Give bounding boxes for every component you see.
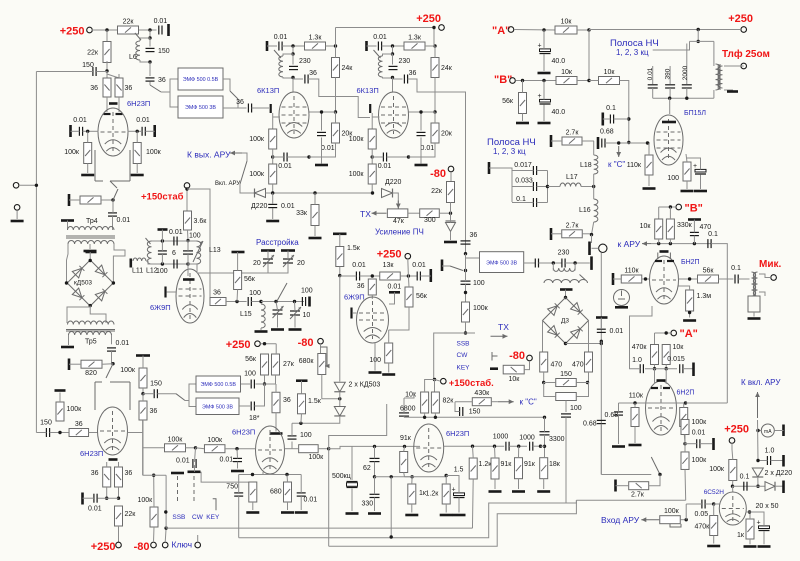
label 6S52N: [704, 489, 725, 496]
label 470k agc: [695, 524, 711, 531]
junction 0.01 keyer: [105, 497, 108, 500]
wire 330k top: [669, 207, 671, 219]
resistor 100k keyer left: [56, 402, 82, 421]
junction row476 391: [390, 475, 393, 478]
wire 62 top: [374, 446, 376, 458]
terminator secondary: [727, 90, 738, 93]
wire mode cap down: [194, 465, 196, 472]
svg-text:100к: 100к: [146, 149, 162, 156]
wire tank3 right: [565, 262, 590, 264]
wire D3 left leg: [542, 321, 544, 353]
wire 150 cap stub: [455, 402, 460, 412]
wire 110k 6N2P top: [634, 403, 636, 408]
svg-text:0.01: 0.01: [278, 163, 292, 170]
wire col to cap: [340, 275, 357, 277]
svg-text:1, 2, 3 кц: 1, 2, 3 кц: [493, 147, 526, 156]
wire xtal bottom: [351, 489, 353, 512]
capacitor 0.01 row276: [352, 262, 366, 281]
wire cap to tank: [539, 262, 562, 264]
resistor 36 L15: [210, 290, 226, 306]
resistor 22k horizontal: [118, 19, 139, 35]
wire 12k top: [445, 476, 447, 485]
label 2.7k bot: [631, 492, 645, 499]
wire ARU line: [651, 243, 712, 245]
svg-text:56к: 56к: [245, 356, 257, 363]
svg-text:100к: 100к: [664, 508, 680, 515]
switch L12 top: [146, 238, 151, 244]
svg-text:+250: +250: [226, 339, 251, 351]
wire 1.5k lower bottom: [300, 414, 303, 424]
junction tx 100k top: [464, 291, 467, 294]
label A out: [680, 328, 698, 340]
svg-text:0.01: 0.01: [88, 506, 102, 513]
wire +250 node: [260, 343, 276, 345]
svg-text:KEY: KEY: [206, 514, 220, 521]
grid terminator bar stage 2: [369, 104, 371, 113]
triode 6Zh9P mid: [357, 297, 389, 343]
label -80 bottom: [134, 541, 150, 553]
wire ecap agc top: [750, 512, 765, 526]
terminator 0.01 left tube1: [69, 125, 72, 137]
svg-text:1, 2, 3 кц: 1, 2, 3 кц: [616, 48, 649, 57]
capacitor 230 tank stage 1: [289, 58, 311, 70]
wire pair right: [576, 383, 588, 397]
mic transformer primary: [752, 272, 756, 296]
svg-text:"А": "А": [492, 25, 510, 37]
indicator circle: [614, 290, 630, 306]
junction 005 grid: [712, 502, 715, 505]
wire diode to gnd: [450, 232, 452, 241]
junction cath left: [251, 473, 254, 476]
wire cap to grid left: [83, 130, 99, 132]
ground crystal: [346, 512, 359, 515]
junction tone out: [327, 447, 330, 450]
junction tank top stage 1: [291, 44, 294, 47]
wire B+ bus riser stage1: [335, 28, 337, 47]
wire terminal stub: [407, 259, 410, 276]
svg-text:SSB: SSB: [172, 514, 185, 521]
svg-text:10к: 10к: [640, 223, 652, 230]
junction meter col: [756, 429, 759, 432]
wire ecap top: [446, 476, 459, 493]
svg-text:6800: 6800: [400, 406, 416, 413]
wire tone cap1 drop: [652, 66, 654, 84]
wire 12k bottom: [445, 504, 447, 513]
wire AGC cap gnd: [272, 208, 274, 219]
label 91k input: [400, 435, 412, 442]
wire pot to -80 terminal: [524, 361, 529, 370]
wire cap3 left: [512, 202, 533, 204]
resistor 100k grid lower stage 1: [249, 164, 276, 184]
junction L6 tank bottom: [148, 60, 151, 63]
junction AF kC: [617, 141, 620, 144]
svg-text:2.7к: 2.7к: [566, 130, 580, 137]
svg-text:230: 230: [299, 58, 311, 65]
wire D3 right leg: [588, 321, 590, 353]
terminator 0.01 osc: [158, 228, 168, 231]
label CW mode: [192, 514, 204, 521]
svg-text:100к: 100к: [249, 136, 265, 143]
bus 12k drop: [472, 525, 474, 529]
wire tank to tube grid: [187, 264, 189, 276]
svg-text:36: 36: [75, 421, 83, 428]
ground indicator: [615, 306, 628, 309]
wire row 476 right: [375, 476, 413, 478]
label 6N23P keyer: [80, 449, 103, 458]
capacitor 150 mixer: [150, 381, 162, 399]
wire Tr5 sec right: [111, 335, 113, 344]
wire 3300 top: [544, 417, 546, 431]
capacitor 0.1 mic: [731, 265, 741, 284]
wire grid into tube stage 2: [372, 116, 379, 118]
capacitor 0.01 AGC decouple stage 2: [378, 153, 392, 171]
terminal A input: [508, 27, 514, 33]
capacitor 0.01 B+ stage 1: [274, 34, 288, 51]
arrow TX: [372, 211, 387, 216]
svg-text:-80: -80: [298, 337, 314, 349]
wire 100k mode right: [186, 447, 196, 449]
junction b+ 6Zh9P: [407, 274, 410, 277]
capacitor 0.01 AGC gnd: [268, 203, 295, 210]
junction ARU 10k: [657, 242, 660, 245]
terminator 100k col: [136, 354, 150, 357]
label SSB: [457, 341, 470, 348]
svg-text:6Ж9П: 6Ж9П: [150, 303, 171, 312]
svg-text:100: 100: [473, 280, 485, 287]
wire anode riser: [669, 98, 671, 114]
wire B down 10k: [658, 207, 660, 219]
terminator varcap2: [281, 249, 295, 252]
label L13: [209, 247, 221, 254]
label TX left: [360, 209, 371, 219]
terminal Klyuch: [162, 542, 168, 548]
wire AGC line left: [266, 192, 373, 194]
switch L15: [277, 283, 287, 301]
wire switch pole: [489, 168, 512, 202]
capacitor 230 out tank: [558, 250, 570, 268]
label 6N2P second: [677, 390, 695, 397]
wire L16 top: [593, 187, 595, 200]
svg-text:к АРУ: к АРУ: [618, 239, 641, 249]
resistor 10k A out: [662, 344, 684, 365]
junction B 56k: [521, 79, 524, 82]
svg-text:0.01: 0.01: [136, 117, 150, 124]
wire to coil stage 1: [283, 54, 293, 56]
terminal input left: [13, 183, 19, 189]
twin triode 6N23P third: [414, 424, 444, 472]
junction tank top right: [186, 239, 189, 242]
terminator Tr4 primary: [61, 219, 74, 222]
wire L15 row: [261, 301, 304, 303]
terminator 100k keyer: [55, 389, 66, 392]
arrow to k C: [616, 146, 621, 157]
wire grid bar tube mid: [353, 312, 357, 314]
resistor 10k A: [555, 19, 577, 35]
resistor 36 screen: [357, 279, 377, 295]
terminal +250 6Zh9P: [405, 253, 411, 259]
ground diode: [444, 241, 457, 244]
ground 1.2k cath: [440, 514, 453, 517]
pot wiper 100k: [670, 524, 681, 527]
svg-text:6Н23П: 6Н23П: [446, 429, 469, 438]
grid terminator bar stage 1: [270, 104, 272, 113]
variable capacitor 10 a: [273, 306, 284, 318]
terminator 820 input: [68, 194, 71, 206]
svg-text:к "С": к "С": [520, 398, 537, 407]
ground 18k: [537, 490, 550, 493]
svg-text:100к: 100к: [473, 305, 489, 312]
wire mic gnd: [759, 292, 765, 296]
resistor 10k divider: [405, 392, 428, 414]
resistor 100k mode: [165, 436, 186, 452]
ground B cap: [538, 122, 551, 125]
svg-text:56к: 56к: [416, 293, 428, 300]
svg-text:0.1: 0.1: [606, 105, 616, 112]
resistor 1.5k col: [336, 245, 361, 267]
wire 20k top stage 1: [335, 112, 337, 123]
wire tube to 1.3M: [679, 286, 690, 290]
svg-text:56к: 56к: [703, 268, 715, 275]
wire bar to switch: [442, 265, 450, 267]
resistor 56k mixer: [245, 354, 268, 375]
junction tank coil top stage 2: [391, 52, 394, 55]
capacitor 6 shunt: [158, 251, 167, 254]
wire 0.01 bar stub: [161, 230, 163, 242]
ground 91k ladder1: [489, 490, 502, 493]
capacitor tank main: [183, 251, 193, 254]
svg-text:330к: 330к: [677, 222, 693, 229]
terminal -80 IF: [448, 166, 454, 172]
potentiometer 47k: [387, 209, 408, 218]
resistor 56k mic: [698, 268, 719, 284]
capacitor 0.01 B+ stage 2: [373, 34, 387, 51]
svg-text:Тр5: Тр5: [85, 339, 97, 346]
wire tank bottom join stage 1: [283, 77, 293, 78]
wire res1 bottom: [252, 502, 254, 510]
wire 62 bottom: [374, 462, 376, 477]
wire EMF2 output: [223, 107, 247, 109]
junction tx node: [464, 331, 467, 334]
wire 6800 top: [403, 398, 405, 413]
svg-text:24к: 24к: [342, 65, 354, 72]
terminator 470 cap: [688, 218, 701, 221]
svg-text:+: +: [693, 163, 697, 170]
wire varcap a bottom: [277, 314, 279, 328]
junction L6 tank top: [148, 36, 151, 39]
junction meter node: [731, 485, 734, 488]
svg-text:100: 100: [244, 371, 256, 378]
label A input: [492, 25, 510, 37]
switch EMF3: [450, 266, 463, 271]
capacitor 230 tank stage 2: [389, 58, 411, 70]
resistor 22k vertical: [87, 42, 111, 63]
wire 100k right top: [136, 131, 138, 142]
capacitor 100 top rail: [174, 237, 177, 246]
svg-text:300: 300: [424, 217, 436, 224]
capacitor 0.1 meter: [740, 474, 750, 491]
svg-text:+250: +250: [60, 26, 85, 38]
resistor 56k B: [502, 93, 526, 114]
svg-text:1.3к: 1.3к: [309, 35, 323, 42]
resistor 22k bias: [431, 182, 454, 203]
svg-text:ЭМФ 500 0.5В: ЭМФ 500 0.5В: [183, 77, 219, 83]
svg-text:-80: -80: [134, 541, 150, 553]
resistor 91k ladder2: [515, 458, 536, 479]
wire 100 det bottom: [565, 417, 567, 503]
terminator band switch: [488, 162, 491, 174]
svg-text:100к: 100к: [168, 436, 184, 443]
wire 36 down: [142, 420, 144, 475]
ground L15: [255, 330, 268, 333]
ground Tr4 center tap: [84, 250, 97, 253]
capacitor 3300: [540, 432, 565, 443]
wire 470L bottom: [543, 372, 545, 383]
junction bridge top: [89, 259, 92, 262]
label 0.01 keyer: [88, 506, 102, 513]
wire cap out top: [300, 475, 302, 493]
capacitor 0.01 mode: [193, 459, 196, 468]
junction 22k keyer: [117, 497, 120, 500]
svg-text:L13: L13: [209, 247, 221, 254]
wire 100 top: [388, 330, 390, 343]
wire 10k2 to riser: [620, 81, 629, 143]
wire node to 22k vertical: [106, 30, 108, 43]
svg-text:10к: 10к: [405, 392, 417, 399]
wire stack join stage 2: [371, 149, 373, 164]
svg-text:680: 680: [270, 489, 282, 496]
rectifier KD503: [67, 260, 113, 306]
wire bar to cap stage 2: [367, 45, 377, 47]
terminator EMF3 switch: [441, 260, 444, 272]
wire 110k to tube: [642, 278, 650, 280]
svg-text:0.01: 0.01: [692, 430, 706, 437]
wire 820 to node: [102, 363, 113, 366]
wire caps common: [547, 171, 549, 203]
wire tank bottom join stage 2: [383, 77, 393, 78]
junction 1.5k bottom: [299, 422, 302, 425]
wire klyuch up: [164, 528, 167, 542]
wire shunt bottom: [161, 254, 163, 264]
resistor 1.3k stage 1: [305, 35, 326, 51]
wire 2.7k to L16 node: [582, 233, 591, 235]
label +250 top-left: [60, 26, 85, 38]
junction 100k keyer: [58, 431, 61, 434]
resistor grid right 6N2P: [680, 408, 688, 427]
filter EMF 500 3V top: [178, 96, 223, 118]
wire bridge out tap: [90, 307, 106, 323]
svg-text:820: 820: [85, 370, 97, 377]
svg-text:430к: 430к: [474, 390, 490, 397]
label 6N23P first: [127, 99, 150, 108]
wire Tr4 sec center tap: [89, 244, 91, 249]
label 123kc left: [493, 147, 526, 156]
capacitor 0.01 det: [597, 328, 623, 335]
label L18: [580, 162, 592, 169]
svg-text:Ключ: Ключ: [172, 540, 193, 550]
cathode bar keyer: [109, 458, 118, 461]
wire tr6 bar: [565, 290, 567, 298]
label 1.5: [454, 467, 464, 474]
label 390 vertical: [665, 68, 672, 79]
wire anode right up: [665, 369, 667, 384]
label CW: [457, 352, 469, 359]
svg-text:47к: 47к: [393, 218, 405, 225]
wire tube right lead: [128, 432, 143, 434]
terminal mic: [771, 275, 777, 281]
label BP15L: [684, 110, 706, 117]
label 820: [85, 370, 97, 377]
wire ecap bottom: [700, 175, 702, 189]
wire ARU cap right: [711, 244, 727, 403]
wire 33k top: [314, 193, 316, 205]
svg-text:150: 150: [560, 371, 572, 378]
label 6Zh9P mid: [344, 293, 365, 302]
resistor 1.3M: [686, 290, 712, 311]
label 1.2k cath: [426, 491, 440, 498]
svg-text:0.01: 0.01: [154, 18, 168, 25]
junction ARU 470: [693, 242, 696, 245]
wire 100k tx bottom: [465, 322, 467, 333]
wire cap1 left: [512, 170, 533, 172]
wire cap to tank node stage 1: [282, 45, 304, 47]
label K vkl ARU: [741, 378, 781, 387]
svg-text:100к: 100к: [67, 406, 83, 413]
wire 22k to node: [450, 203, 452, 214]
svg-text:150: 150: [158, 48, 170, 55]
svg-text:6Н23П: 6Н23П: [232, 428, 255, 437]
resistor 20k stage 2: [431, 123, 453, 143]
capacitor 0.01 left tube1: [73, 117, 87, 136]
resistor 430k: [472, 390, 491, 406]
wire 005 left: [686, 503, 702, 505]
junction transformer top: [697, 40, 700, 43]
junction mic node: [688, 277, 691, 280]
wire 100 bottom: [686, 181, 688, 189]
wire 100k at top: [684, 419, 686, 422]
inductor L13: [197, 241, 201, 264]
terminator jack: [588, 242, 591, 256]
wire Tr4 primary left: [67, 221, 69, 231]
wire 12kl bottom: [472, 479, 475, 525]
ground ecap 1.5: [453, 514, 466, 517]
wire 56k down: [389, 307, 409, 330]
svg-text:ЭМФ 500 3В: ЭМФ 500 3В: [486, 260, 517, 266]
junction bus 10k: [423, 416, 426, 419]
wire cathode cap bottom stage 1: [321, 138, 323, 164]
wire mode cap up: [195, 448, 196, 462]
svg-text:L6: L6: [129, 54, 137, 61]
label Polosa NCh left: [487, 137, 536, 148]
label k ARU: [618, 239, 641, 249]
label +250 top-mid: [416, 13, 441, 25]
twin triode BN2P first: [650, 256, 679, 304]
label 300: [424, 217, 436, 224]
wire 20k bottom stage 1: [322, 143, 336, 157]
wire +250 to R 22k: [92, 29, 117, 31]
wiper loop 680k: [321, 347, 330, 368]
junction ARU 330k: [669, 242, 672, 245]
capacitor 0.01 right tube1: [136, 117, 150, 136]
variable capacitor 20 no2: [283, 255, 294, 267]
resistor 100k right tube1: [133, 143, 161, 164]
wire 100k2 down: [684, 470, 687, 501]
wire L13 top: [188, 240, 197, 242]
label 20x50: [756, 503, 779, 510]
junction cath3 left: [410, 475, 413, 478]
svg-text:91к: 91к: [524, 461, 536, 468]
wire 91l2 top: [518, 446, 520, 458]
junction switch node: [658, 473, 661, 476]
